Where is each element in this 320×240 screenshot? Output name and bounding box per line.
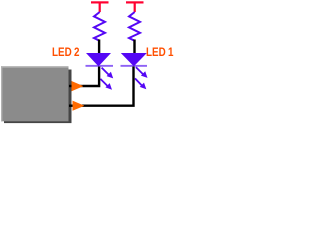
resistor R2 (left) xyxy=(94,12,105,41)
pin stub P62 xyxy=(69,105,84,107)
pin arrow P63 xyxy=(72,81,84,91)
LED D2 (LED2) triangle xyxy=(86,53,111,66)
label LED1 xyxy=(146,45,175,59)
LED D1 emission arrow b xyxy=(135,78,146,89)
pin name P63 xyxy=(181,78,209,94)
wire R1 to LED1 xyxy=(133,40,135,55)
LED D2 emission arrow b xyxy=(100,79,112,90)
LED D1 (LED1) triangle xyxy=(121,53,147,66)
label LED2 xyxy=(52,45,81,59)
power rail VCC right xyxy=(126,1,144,12)
power rail VCC left xyxy=(91,1,109,12)
pin name P62 xyxy=(181,96,209,112)
IC box U1 (port block) xyxy=(1,66,69,121)
wire P62 to LED1 xyxy=(84,67,134,106)
LED D1 emission arrow a xyxy=(136,67,148,78)
resistor R1 (right) xyxy=(129,12,140,41)
wire P63 to LED2 xyxy=(83,67,99,87)
pin stub P63 xyxy=(69,85,83,87)
LED D2 emission arrow a xyxy=(102,68,114,79)
LED D2 (LED2) cathode bar xyxy=(86,65,114,67)
IC box shadow xyxy=(4,70,72,124)
pin arrow P62 xyxy=(73,101,85,111)
LED D1 (LED1) cathode bar xyxy=(121,65,148,67)
wire R2 to LED2 xyxy=(98,40,100,55)
